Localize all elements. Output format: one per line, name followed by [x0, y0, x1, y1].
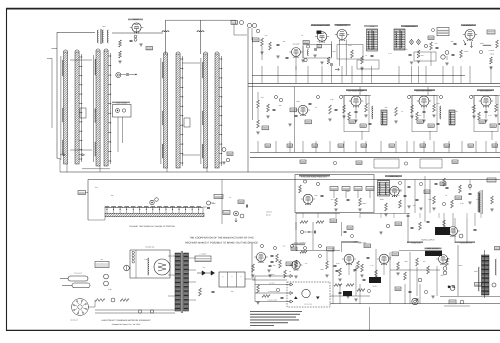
svg-text:A PHOTOFACT STANDARD NOTATION: A PHOTOFACT STANDARD NOTATION SCHEMATIC	[101, 319, 151, 322]
svg-text:HEIGHT: HEIGHT	[372, 285, 377, 287]
svg-text:B+ 250V: B+ 250V	[269, 274, 274, 276]
svg-text:TO DIAL LAMPS: TO DIAL LAMPS	[267, 299, 277, 301]
svg-text:TO SPKR: TO SPKR	[488, 50, 494, 52]
svg-text:4-27: 4-27	[283, 246, 286, 248]
svg-text:HORIZ OUTPUT: HORIZ OUTPUT	[421, 238, 435, 241]
svg-text:B+ 135V: B+ 135V	[269, 282, 274, 284]
svg-text:RECEIVER MAKES IT POSSIBLE TO: RECEIVER MAKES IT POSSIBLE TO BRING YOU …	[185, 242, 258, 245]
svg-text:©Howard W. Sams & Co., Inc. 19: ©Howard W. Sams & Co., Inc. 1952	[112, 323, 141, 326]
svg-text:TO HEATERS: TO HEATERS	[268, 291, 277, 293]
svg-text:OF V17: OF V17	[266, 215, 271, 217]
svg-text:FOCUS COIL: FOCUS COIL	[304, 303, 312, 305]
svg-text:L.V. RECT: L.V. RECT	[200, 253, 207, 255]
svg-text:INTERLOCK: INTERLOCK	[74, 272, 82, 274]
svg-text:ANT: ANT	[101, 259, 104, 261]
svg-text:THE COOPERATION OF THE MANUFAC: THE COOPERATION OF THE MANUFACTURER OF T…	[189, 237, 254, 240]
svg-text:ON-OFF VOL: ON-OFF VOL	[146, 246, 155, 248]
svg-text:TO PIN 4: TO PIN 4	[266, 212, 272, 214]
svg-text:CHANNEL TRIP SHOWN IN CHANNEL: CHANNEL TRIP SHOWN IN CHANNEL 13 POSITIO…	[129, 225, 175, 228]
svg-text:FIELD: FIELD	[490, 54, 494, 56]
